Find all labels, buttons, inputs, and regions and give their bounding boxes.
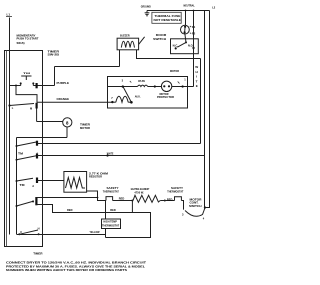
svg-text:TIMER: TIMER: [80, 122, 90, 126]
svg-text:TM: TM: [18, 152, 23, 156]
wire right contact to purple riser, junction dot: [33, 67, 54, 89]
svg-text:TM: TM: [23, 73, 30, 75]
node dot on wire2: [106, 154, 108, 156]
wire fuse drop: [185, 11, 187, 26]
svg-text:2.77 K OHM: 2.77 K OHM: [89, 171, 108, 175]
svg-text:SWITCH: SWITCH: [189, 204, 202, 208]
svg-text:TM: TM: [20, 183, 25, 187]
rail protector to right: [172, 86, 194, 88]
timer cam 1 contact bar: [36, 141, 38, 146]
high temp thermostat box: [102, 219, 121, 229]
wire to heating element: [113, 200, 133, 202]
svg-text:WHITE: WHITE: [107, 152, 114, 156]
svg-text:PUSH TO START: PUSH TO START: [17, 37, 40, 40]
label HEATING ELEMENT 4750 W.: [131, 187, 150, 194]
svg-text:RED: RED: [110, 208, 116, 212]
wire M lower lead to timer motor: [37, 109, 63, 122]
svg-text:RED: RED: [67, 208, 73, 212]
node dot fuse tap: [185, 10, 187, 12]
wire buzzer left lead: [119, 50, 121, 67]
svg-text:RUN: RUN: [138, 79, 144, 83]
label MOTOR PROTECTOR: [157, 93, 174, 99]
wire resistor right lead: [87, 191, 107, 201]
svg-text:M: M: [32, 200, 34, 204]
svg-text:W: W: [195, 65, 198, 69]
node junction W1/resistor: [97, 197, 99, 199]
timer cam 4 contact bar: [35, 197, 37, 205]
svg-text:SW-2B: SW-2B: [48, 53, 60, 57]
label SAFETY THERMOSTAT: [103, 186, 119, 193]
wire box bottom to yellow: [105, 229, 107, 238]
wire riser buzzer-wire to cam1 wire: [200, 59, 202, 144]
tick near 1: [178, 82, 180, 84]
svg-text:N.C.: N.C.: [173, 44, 179, 48]
svg-text:DOOR: DOOR: [156, 33, 167, 37]
node centrifugal contact blob: [130, 101, 133, 104]
resistor R1 box: [64, 172, 87, 193]
timer cam 4 arm: [17, 201, 35, 206]
switch SW-B momentary push-to-start plunger: [21, 73, 31, 80]
label TIMER SW-2B: [48, 49, 60, 56]
svg-text:SWITCH: SWITCH: [153, 37, 166, 41]
timer cam switch L-M node dot: [8, 104, 10, 106]
timer cam 1 arm: [17, 142, 37, 146]
high temp thermostat drop wire: [105, 201, 107, 220]
svg-text:ORANGE: ORANGE: [57, 97, 70, 101]
svg-text:T: T: [196, 79, 198, 83]
svg-text:MOTOR: MOTOR: [170, 69, 179, 73]
safety thermostat 1 bump: [106, 197, 113, 201]
timer cam 2 contact bar: [36, 154, 38, 159]
contact bar M: [35, 103, 37, 109]
rail to protector: [148, 86, 162, 88]
timer cam 1 dot: [16, 145, 18, 147]
svg-text:NEUTRAL: NEUTRAL: [184, 3, 196, 7]
svg-text:NUMBERS WHEN WRITING ABOUT THI: NUMBERS WHEN WRITING ABOUT THIS DRYER OR…: [6, 268, 127, 272]
svg-text:C: C: [20, 230, 22, 234]
svg-text:HEATING ELEMENT: HEATING ELEMENT: [131, 187, 150, 191]
svg-text:MOTOR: MOTOR: [80, 126, 90, 130]
svg-text:GROUND: GROUND: [141, 4, 151, 8]
safety thermostat 2 bump: [175, 197, 182, 201]
label F1: [190, 25, 196, 29]
wire fuse to pivot: [185, 34, 186, 42]
svg-text:PROTECTOR: PROTECTOR: [157, 96, 174, 99]
svg-text:THERMOSTAT: THERMOSTAT: [103, 189, 119, 193]
wire cam1 to motor right side: [37, 143, 201, 145]
wire orange from M contact to motor terminal 7: [37, 101, 113, 103]
motor protector circle: [161, 81, 171, 91]
svg-text:NOT RESETABLE: NOT RESETABLE: [154, 19, 182, 22]
label WHITE vertical: [195, 65, 198, 88]
svg-text:HIGH TEMP: HIGH TEMP: [103, 221, 117, 224]
svg-text:AUX.: AUX.: [135, 95, 141, 98]
wire element dot drop: [131, 201, 133, 213]
wire thermostat 2 to terminal 3: [181, 201, 183, 210]
svg-text:YELLOW: YELLOW: [90, 230, 100, 234]
label HIGH TEMP THERMOSTAT: [102, 221, 120, 228]
wire cam4 lower exit red loop: [36, 205, 150, 238]
run winding coil: [138, 85, 148, 86]
svg-text:A: A: [32, 184, 34, 188]
label DOOR SWITCH: [153, 33, 166, 41]
switch SW-B contacts: [20, 82, 35, 85]
timer internal bus: [16, 138, 18, 235]
wire L1 to left contact: [10, 85, 21, 87]
node dot left of protector: [154, 85, 156, 87]
svg-text:SAFETY: SAFETY: [171, 186, 183, 190]
wire top rail ground to L2: [147, 10, 210, 12]
wire yellow: [17, 234, 106, 236]
wire staircase L1 feed to M contact: [16, 86, 37, 103]
label SAFETY THERMOSTAT right: [167, 186, 183, 193]
wire buzzer right lead: [137, 50, 201, 59]
door switch box: [171, 39, 199, 54]
buzzer coil: [121, 41, 134, 47]
node dot element right: [164, 200, 166, 202]
timer cam 5 C-H switch: [18, 226, 39, 235]
svg-text:THERMOSTAT: THERMOSTAT: [167, 189, 183, 193]
wire neutral / white riser: [193, 11, 195, 87]
label 2.77 K OHM RESISTOR: [89, 171, 108, 178]
node motor terminal 3 dot: [122, 85, 124, 87]
resistor R1 zigzag: [66, 178, 86, 189]
wire cam4 upper exit W1: [36, 197, 97, 199]
svg-text:RED: RED: [167, 197, 173, 201]
node motor terminal 7 dot: [111, 101, 113, 103]
svg-text:PURPLE: PURPLE: [57, 81, 70, 85]
label N.C. and contact: [173, 44, 179, 50]
svg-text:BUZZER: BUZZER: [120, 34, 130, 38]
wire element to thermostat 2: [160, 200, 174, 202]
ground symbol: [141, 4, 151, 15]
svg-text:THERMAL FUSE: THERMAL FUSE: [155, 15, 182, 18]
label MOTOR CONT. SWITCH: [189, 197, 202, 208]
timer box inner left line: [6, 50, 8, 247]
label N.O. and contact: [188, 44, 195, 51]
node motor cont switch terminal dot: [204, 206, 206, 208]
thermal fuse label box: [152, 12, 182, 23]
svg-text:TIMER: TIMER: [33, 252, 43, 256]
node dot element left: [131, 200, 133, 202]
door switch pivot dot and arm: [177, 41, 187, 47]
svg-text:SW-B): SW-B): [17, 42, 25, 45]
wire L2 vertical: [205, 11, 210, 208]
timer motor circle: [63, 118, 72, 127]
timer cam 3 contact bar: [36, 178, 38, 184]
heating element zigzag: [133, 195, 160, 202]
wire timer motor bottom return: [17, 127, 68, 138]
timer cam 3 arm: [17, 178, 34, 181]
svg-text:SAFETY: SAFETY: [107, 186, 119, 190]
centrifugal switch arm: [123, 87, 131, 103]
timer cam 2 arm: [17, 156, 37, 160]
timer cam 4 dot: [16, 205, 18, 207]
thermal fuse F1-F2: [181, 25, 190, 34]
label F2: [190, 32, 196, 36]
svg-text:4750 W.: 4750 W.: [134, 191, 144, 195]
footnote text: [6, 260, 146, 272]
wire purple run to buzzer: [55, 66, 120, 68]
node dot neutral tap: [193, 10, 195, 12]
svg-text:L1: L1: [7, 13, 11, 17]
wire neutral branch riser to motor cont switch: [204, 11, 206, 208]
wire cam3 to resistor: [37, 180, 64, 182]
svg-text:RESISTOR: RESISTOR: [89, 175, 102, 179]
motor run rail: [108, 86, 138, 88]
motor box: [108, 77, 188, 109]
node motor terminal 1 dot: [182, 85, 184, 87]
wire cam2 to motor cont switch riser: [37, 155, 205, 157]
motor cont. switch arc blade: [185, 208, 205, 216]
svg-text:H: H: [38, 226, 40, 230]
switch arm L to M: [10, 104, 35, 106]
aux winding coil: [112, 96, 130, 102]
diagonal mark near buzzer: [139, 37, 145, 44]
timer box: [5, 51, 43, 247]
label MOMENTARY PUSH TO START SW-B: [17, 34, 40, 45]
svg-text:THERMOSTAT: THERMOSTAT: [102, 225, 120, 228]
svg-text:I: I: [196, 75, 197, 79]
label TIMER MOTOR: [80, 122, 90, 129]
svg-text:E: E: [196, 84, 198, 88]
svg-text:M: M: [30, 106, 32, 110]
node L1 label: [6, 13, 12, 17]
timer cam 3 dot: [16, 180, 18, 182]
buzzer box: [117, 38, 139, 50]
wire L1 drop to push-to-start switch: [9, 18, 11, 235]
timer cam 2 dot: [16, 159, 18, 161]
